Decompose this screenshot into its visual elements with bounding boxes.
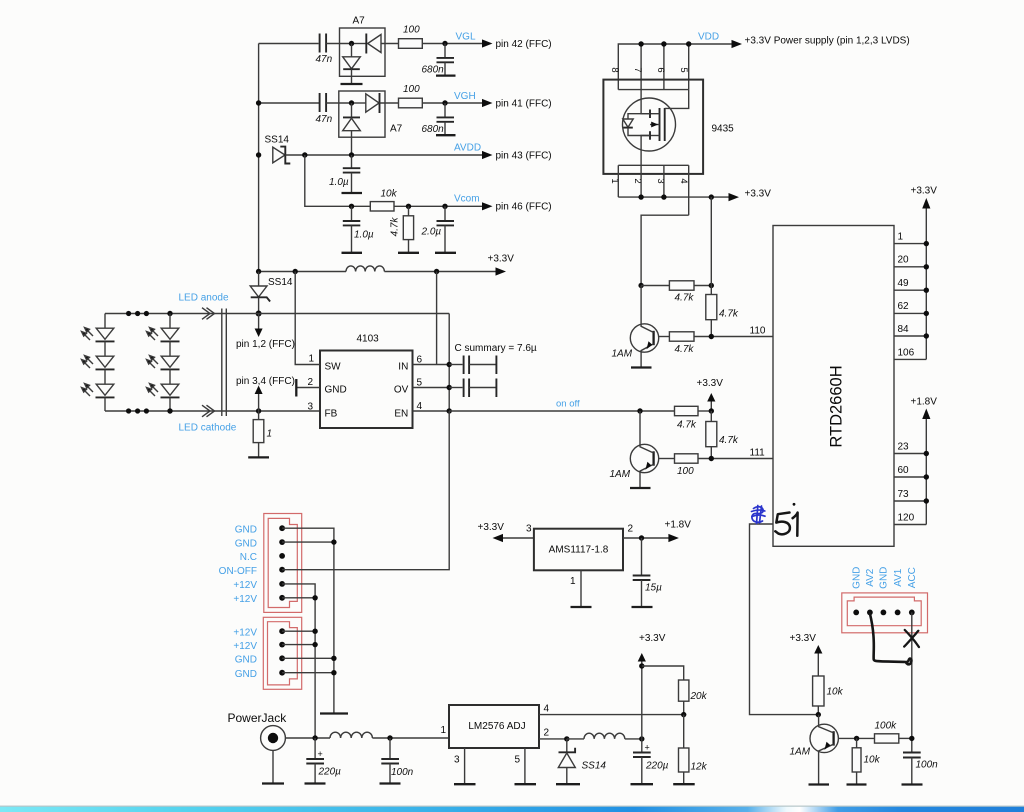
- pin 84 stub: [894, 324, 926, 336]
- resistor 4.7k (Q110 top): [641, 281, 711, 304]
- node 12V bus 4: [312, 642, 317, 647]
- ground below 10k pulldown: [847, 783, 867, 785]
- arrow +3.3V Q4: [790, 633, 823, 676]
- node rail at main vertical: [256, 269, 261, 274]
- node 100n input: [387, 735, 392, 740]
- arrow +3.3V LM output: [638, 633, 666, 662]
- IC U3 AMS1117-1.8: [534, 529, 623, 571]
- pin lead bar top: [618, 89, 688, 91]
- CN3 pin AV2: [867, 610, 873, 616]
- wire main left vertical: [258, 44, 260, 272]
- wire +12V2: [282, 597, 315, 599]
- node on-off collector: [637, 408, 642, 413]
- node Q4 collector: [816, 712, 821, 717]
- ground below 15u: [632, 606, 653, 608]
- svg-text:12k: 12k: [691, 762, 708, 773]
- capacitor bank row OV: [449, 379, 496, 398]
- LED string 2: [161, 314, 180, 412]
- resistor 100 (VGH): [399, 84, 423, 108]
- pin 2 lead bottom: [640, 165, 642, 197]
- svg-text:1: 1: [441, 725, 447, 736]
- resistor 10k (Vcom): [370, 189, 397, 212]
- ground below LM pin5: [515, 783, 537, 785]
- svg-text:IN: IN: [398, 362, 408, 373]
- pin 7 lead top: [640, 44, 642, 90]
- svg-text:47n: 47n: [316, 54, 333, 65]
- svg-text:106: 106: [898, 348, 915, 359]
- node gnd bus 3: [331, 656, 336, 661]
- wire VGH row left: [259, 102, 319, 104]
- arrow to pin 42: [482, 39, 552, 50]
- svg-text:OV: OV: [394, 385, 409, 396]
- arrow +1.8V from AMS1117: [665, 520, 692, 543]
- ground below Q110: [631, 366, 652, 368]
- resistor 4.7k (Q110 base): [659, 332, 773, 355]
- ground below jack: [262, 782, 284, 784]
- pin 5 lead top: [688, 44, 690, 90]
- ground below resistor 1: [248, 456, 269, 458]
- svg-text:4.7k: 4.7k: [719, 309, 739, 320]
- svg-text:+3.3V: +3.3V: [488, 254, 515, 265]
- wire 10k to pin46 arrow: [394, 205, 483, 207]
- mosfet source stub: [650, 131, 660, 140]
- svg-text:73: 73: [898, 489, 910, 500]
- svg-text:4.7k: 4.7k: [719, 435, 739, 446]
- svg-text:6: 6: [655, 67, 666, 72]
- resistor 4.7k (Q111 pullup) vertical: [706, 411, 739, 459]
- wire inductor to 220u: [625, 738, 642, 740]
- diode SS14 (anode rail, pointing down): [250, 272, 293, 314]
- svg-text:+: +: [318, 749, 323, 759]
- pin 120 stub: [894, 513, 926, 525]
- inductor L3 (LM output): [584, 733, 625, 739]
- svg-text:7: 7: [632, 67, 643, 72]
- CN3 pin AV1: [895, 610, 901, 616]
- ground below gnd bus: [320, 712, 348, 714]
- pin 1 SW stub: [295, 272, 320, 365]
- node 1.8V output: [639, 535, 644, 540]
- arrow to pin 43: [482, 151, 552, 162]
- FFC cable double line: [222, 309, 227, 417]
- node Vcom cap tap: [349, 204, 354, 209]
- node 12V bus 2: [312, 595, 317, 600]
- pin 3 lead bottom: [663, 165, 665, 197]
- node bus pin84: [924, 333, 929, 338]
- capacitor 220u (input): [306, 738, 341, 784]
- diode D2a horizontal (VGH, cathode right): [352, 93, 399, 113]
- capacitor 15u: [633, 538, 662, 607]
- wire GND1 to gnd bus: [282, 528, 334, 713]
- pin 106 stub: [894, 348, 926, 360]
- svg-text:10k: 10k: [381, 189, 398, 200]
- wire cap to module: [326, 102, 351, 104]
- svg-text:Vcom: Vcom: [454, 194, 480, 205]
- node rail pullup: [709, 194, 714, 199]
- wire gate route to Q110: [641, 215, 689, 285]
- ground below 220u input: [305, 782, 326, 784]
- node VGH tap: [256, 100, 261, 105]
- svg-text:2: 2: [308, 377, 314, 388]
- LED string 1: [96, 314, 115, 412]
- svg-text:6: 6: [417, 355, 423, 366]
- mosfet gate route from pin 5: [665, 90, 689, 109]
- svg-text:+3.3V: +3.3V: [790, 633, 817, 644]
- transistor Q110 1AM: [612, 286, 659, 368]
- svg-text:GND: GND: [235, 525, 257, 536]
- svg-text:LED cathode: LED cathode: [179, 423, 237, 434]
- node bus pin62: [924, 311, 929, 316]
- svg-text:pin 41 (FFC): pin 41 (FFC): [496, 99, 552, 110]
- wire LED anode row: [105, 313, 449, 315]
- svg-text:49: 49: [898, 278, 910, 289]
- node rail pin2: [638, 194, 643, 199]
- CN3 pin GND a: [853, 610, 859, 616]
- node bus pin60: [924, 474, 929, 479]
- svg-text:+1.8V: +1.8V: [665, 520, 692, 531]
- wire 3.3V up from LM output: [641, 662, 643, 739]
- node bus pin20: [924, 264, 929, 269]
- pin 2 output wire: [623, 524, 670, 539]
- svg-text:+3.3V: +3.3V: [911, 186, 938, 197]
- svg-text:2.0µ: 2.0µ: [421, 227, 442, 238]
- svg-text:+3.3V: +3.3V: [639, 633, 666, 644]
- ground below 680n VGH: [436, 134, 456, 136]
- capacitor 100n (input): [381, 738, 413, 784]
- pin 1 lead bottom: [617, 165, 619, 197]
- node bus pin23: [924, 451, 929, 456]
- svg-text:GND: GND: [325, 385, 347, 396]
- transistor Q111 1AM: [610, 411, 659, 488]
- ground below AMS pin1: [571, 606, 592, 608]
- node cathode sense: [256, 408, 261, 413]
- node anode string2: [167, 311, 172, 316]
- node LM 3.3V: [639, 736, 644, 741]
- svg-text:84: 84: [898, 324, 910, 335]
- inductor L2 (input filter): [330, 732, 372, 738]
- pin lead bar bottom: [618, 164, 688, 166]
- node pin111: [709, 456, 714, 461]
- svg-text:+12V: +12V: [233, 594, 257, 605]
- svg-text:ON-OFF: ON-OFF: [219, 566, 257, 577]
- pin 60 stub: [894, 465, 926, 477]
- wire LED cathode row: [105, 410, 320, 412]
- node ACC junction: [909, 736, 914, 741]
- ground below 100n input: [380, 782, 401, 784]
- svg-text:VDD: VDD: [698, 32, 719, 43]
- svg-text:680n: 680n: [422, 65, 445, 76]
- resistor 100 (VGL): [399, 25, 423, 49]
- svg-text:100n: 100n: [916, 760, 939, 771]
- arrow +3.3V rail: [488, 254, 515, 276]
- capacitor 100n (ACC): [903, 753, 938, 785]
- svg-text:110: 110: [750, 326, 766, 337]
- svg-text:4: 4: [678, 178, 689, 183]
- wire pin 51 stub: [750, 524, 819, 715]
- connector CN1 housing (red): [264, 514, 302, 613]
- svg-text:GND: GND: [235, 669, 257, 680]
- svg-text:2: 2: [544, 728, 550, 739]
- svg-text:1AM: 1AM: [612, 349, 633, 360]
- wire CN2 GND1: [282, 657, 334, 659]
- node Vcom output: [442, 204, 447, 209]
- svg-text:+3.3V: +3.3V: [478, 522, 505, 533]
- ground below SS14: [556, 783, 580, 785]
- svg-text:111: 111: [750, 448, 766, 459]
- svg-text:pin 46 (FFC): pin 46 (FFC): [496, 202, 552, 213]
- CN3 pin ACC: [909, 610, 915, 616]
- IC U1 4103: [320, 334, 413, 429]
- charge pump module A7 (VGL): [340, 16, 386, 77]
- node LM output: [564, 736, 569, 741]
- svg-text:SS14: SS14: [268, 277, 293, 288]
- node VGH output: [442, 100, 447, 105]
- pin 6 IN stub: [413, 355, 450, 366]
- node bus pin73: [924, 498, 929, 503]
- pin 4 feedback wire: [539, 704, 684, 715]
- CN1 pin +12V 1: [279, 581, 285, 587]
- svg-text:100n: 100n: [391, 767, 414, 778]
- capacitor 47n (VGL pump): [316, 34, 333, 66]
- ground below 12k: [673, 783, 695, 785]
- node AVDD tap: [256, 152, 261, 157]
- resistor 10k (Q4 base pulldown): [852, 738, 880, 784]
- svg-text:1.0µ: 1.0µ: [329, 177, 349, 188]
- node IN: [447, 362, 452, 367]
- arrow to pin 46: [482, 202, 552, 213]
- svg-text:4.7k: 4.7k: [390, 217, 401, 237]
- svg-text:4103: 4103: [357, 334, 380, 345]
- wire +3.3V rail left: [259, 271, 346, 273]
- svg-text:1: 1: [898, 232, 904, 243]
- node AVDD after diode: [302, 152, 307, 157]
- ground below 2.0u: [435, 252, 456, 254]
- svg-text:100: 100: [403, 25, 420, 36]
- svg-text:220µ: 220µ: [318, 767, 342, 778]
- wire resistor to pin41 arrow: [422, 102, 483, 104]
- connector CN2 housing (red): [263, 617, 301, 689]
- node Vcom divider: [406, 204, 411, 209]
- resistor 100 (Q111 base): [659, 454, 773, 477]
- wire 1.8V pin bus: [925, 419, 927, 525]
- svg-text:+: +: [645, 743, 650, 753]
- pin 23 stub: [894, 442, 926, 454]
- capacitor 220u (output): [633, 739, 669, 784]
- node Q111 pullup top: [709, 408, 714, 413]
- svg-text:SS14: SS14: [265, 135, 290, 146]
- svg-text:pin 43 (FFC): pin 43 (FFC): [496, 151, 552, 162]
- svg-text:680n: 680n: [422, 124, 445, 135]
- svg-text:62: 62: [898, 301, 910, 312]
- svg-text:20k: 20k: [690, 691, 708, 702]
- mosfet drain stub: [650, 110, 660, 119]
- wire pullup vertical: [710, 197, 712, 294]
- svg-text:A7: A7: [390, 124, 403, 135]
- diode D1b vertical (VGL, pointing down): [343, 44, 361, 85]
- node Q110 gate junction: [638, 283, 643, 288]
- wire VGL row left: [259, 43, 319, 45]
- node bus pin49: [924, 288, 929, 293]
- svg-text:100: 100: [677, 466, 694, 477]
- mosfet body diode: [623, 114, 650, 136]
- svg-text:GND: GND: [235, 538, 257, 549]
- capacitor 680n (VGL): [422, 44, 455, 76]
- svg-text:3: 3: [454, 755, 460, 766]
- node AVDD cap tap: [349, 152, 354, 157]
- wire CN2 +12V1: [282, 630, 315, 632]
- svg-text:1AM: 1AM: [790, 747, 811, 758]
- diode SS14 (AVDD): [265, 135, 291, 164]
- svg-text:RTD2660H: RTD2660H: [828, 365, 846, 447]
- node 12V bus 3: [312, 629, 317, 634]
- capacitor 1.0u (AVDD): [329, 155, 360, 193]
- pin 73 stub: [894, 489, 926, 501]
- pin 62 stub: [894, 301, 926, 313]
- svg-text:23: 23: [898, 442, 910, 453]
- diode SS14 (catch, pointing up): [558, 739, 606, 784]
- wire +12V1 to 12V bus: [282, 584, 315, 738]
- CN1 pin +12V 2: [279, 595, 285, 601]
- node divider top feed: [639, 663, 644, 668]
- CN1 pin ON-OFF: [279, 567, 285, 573]
- node Q4 base: [854, 736, 859, 741]
- node gnd bus 4: [331, 670, 336, 675]
- wire CN2 +12V2: [282, 644, 315, 646]
- mosfet internal top connection: [641, 90, 650, 114]
- CN3 pin GND b: [881, 610, 887, 616]
- ground below 680n VGL: [436, 74, 456, 76]
- mosfet channel bar: [659, 108, 661, 141]
- ground below 100n ACC: [902, 783, 923, 785]
- dots more-strings top: [126, 311, 149, 316]
- wire EN to on-off line: [449, 410, 674, 412]
- svg-text:+12V: +12V: [233, 580, 257, 591]
- svg-text:A7: A7: [353, 16, 366, 27]
- node rail at SW branch: [293, 269, 298, 274]
- wire resistor to pin42 arrow: [422, 43, 483, 45]
- power jack J1: [261, 726, 286, 784]
- wire GND2: [282, 541, 334, 543]
- node cathode string2: [167, 408, 172, 413]
- wire ON-OFF up to EN: [282, 411, 449, 570]
- svg-text:3: 3: [308, 402, 314, 413]
- pin 5 ground stub: [515, 748, 525, 784]
- ground below 4.7k Vcom: [398, 252, 419, 254]
- handwritten X mark: [904, 630, 919, 647]
- svg-text:pin 1,2 (FFC): pin 1,2 (FFC): [236, 339, 295, 350]
- ground below A7 VGL: [341, 83, 363, 85]
- pin 49 stub: [894, 278, 926, 290]
- node gnd bus 2: [331, 539, 336, 544]
- svg-text:ACC: ACC: [907, 567, 918, 588]
- ground below LM pin3: [454, 783, 476, 785]
- node VGL output: [442, 41, 447, 46]
- resistor 4.7k (Q110 pullup) vertical: [706, 295, 739, 337]
- svg-text:4.7k: 4.7k: [677, 420, 697, 431]
- blue ink scribble at pin 51: [752, 506, 766, 524]
- node VGL pump junction: [349, 41, 354, 46]
- CN1 pin N.C: [279, 553, 285, 559]
- wire inductor to LM2576 pin1: [372, 737, 449, 739]
- transistor Q4 1AM: [790, 715, 839, 785]
- svg-text:+1.8V: +1.8V: [911, 397, 938, 408]
- svg-text:4.7k: 4.7k: [675, 344, 695, 355]
- svg-text:PowerJack: PowerJack: [228, 711, 288, 725]
- svg-text:15µ: 15µ: [645, 583, 662, 594]
- node 4.7k top right: [709, 283, 714, 288]
- ground below 220u output: [631, 783, 654, 785]
- LED string 1 emission arrows: [82, 328, 94, 397]
- diode D1a horizontal (VGL, cathode left): [352, 34, 399, 54]
- mosfet internal bottom connection: [641, 136, 650, 166]
- pin 4 lead bottom: [688, 165, 690, 215]
- wire jack to LM2576: [285, 737, 330, 739]
- CN2 pin GND 2: [279, 670, 285, 676]
- svg-text:pin 42 (FFC): pin 42 (FFC): [496, 39, 552, 50]
- mosfet gate bar: [664, 108, 666, 141]
- svg-text:VGH: VGH: [454, 91, 476, 102]
- LED string 2 emission arrows: [147, 328, 159, 397]
- svg-text:AV2: AV2: [865, 568, 876, 587]
- wire anode line corner to IN: [448, 314, 450, 412]
- svg-text:EN: EN: [394, 409, 408, 420]
- resistor 20k: [679, 680, 708, 715]
- CN2 pin +12V 1: [279, 628, 285, 634]
- capacitor 680n (VGH): [422, 103, 455, 135]
- wire +3.3V rail below 9435: [618, 196, 728, 198]
- svg-text:1: 1: [309, 354, 315, 365]
- svg-text:4.7k: 4.7k: [675, 293, 695, 304]
- capacitor bank row IN: [449, 356, 496, 375]
- svg-text:20: 20: [898, 255, 910, 266]
- svg-text:GND: GND: [852, 567, 863, 589]
- svg-text:60: 60: [898, 465, 910, 476]
- node pin110: [709, 334, 714, 339]
- svg-text:1AM: 1AM: [610, 469, 631, 480]
- svg-text:VGL: VGL: [456, 32, 476, 43]
- ground below Q111: [630, 487, 651, 489]
- svg-text:AV1: AV1: [893, 568, 904, 587]
- ground below 1.0u AVDD: [342, 192, 363, 194]
- arrow pin 1,2 (FFC): [236, 314, 295, 351]
- node rail at IN branch: [434, 269, 439, 274]
- handwritten 51: [775, 513, 797, 536]
- CN1 pin GND 2: [279, 539, 285, 545]
- svg-text:AVDD: AVDD: [454, 143, 481, 154]
- pin 5 OV stub: [413, 378, 450, 389]
- wire to 20k: [642, 666, 684, 680]
- svg-text:GND: GND: [235, 655, 257, 666]
- node LED anode junction: [256, 311, 262, 317]
- pin 20 stub: [894, 255, 926, 267]
- mosfet symbol circle: [623, 98, 676, 151]
- svg-text:on off: on off: [556, 399, 580, 410]
- capacitor 2.0u (Vcom): [421, 206, 455, 253]
- IC Q 9435 package: [603, 80, 734, 174]
- svg-text:GND: GND: [879, 567, 890, 589]
- mosfet bulk stub with arrow: [650, 122, 660, 128]
- svg-text:100: 100: [403, 84, 420, 95]
- node VGH pump junction: [349, 100, 354, 105]
- node EN: [447, 408, 452, 413]
- IC U2 RTD2660H: [773, 226, 894, 547]
- pin 2 GND stub with terminal bar: [296, 377, 320, 397]
- resistor 100k: [875, 721, 912, 744]
- wire ACC down: [911, 612, 913, 752]
- pin 6 lead top: [663, 44, 665, 90]
- wire VDD rail top: [618, 44, 731, 90]
- capacitor 47n (VGH pump): [316, 93, 333, 125]
- svg-text:1: 1: [570, 576, 576, 587]
